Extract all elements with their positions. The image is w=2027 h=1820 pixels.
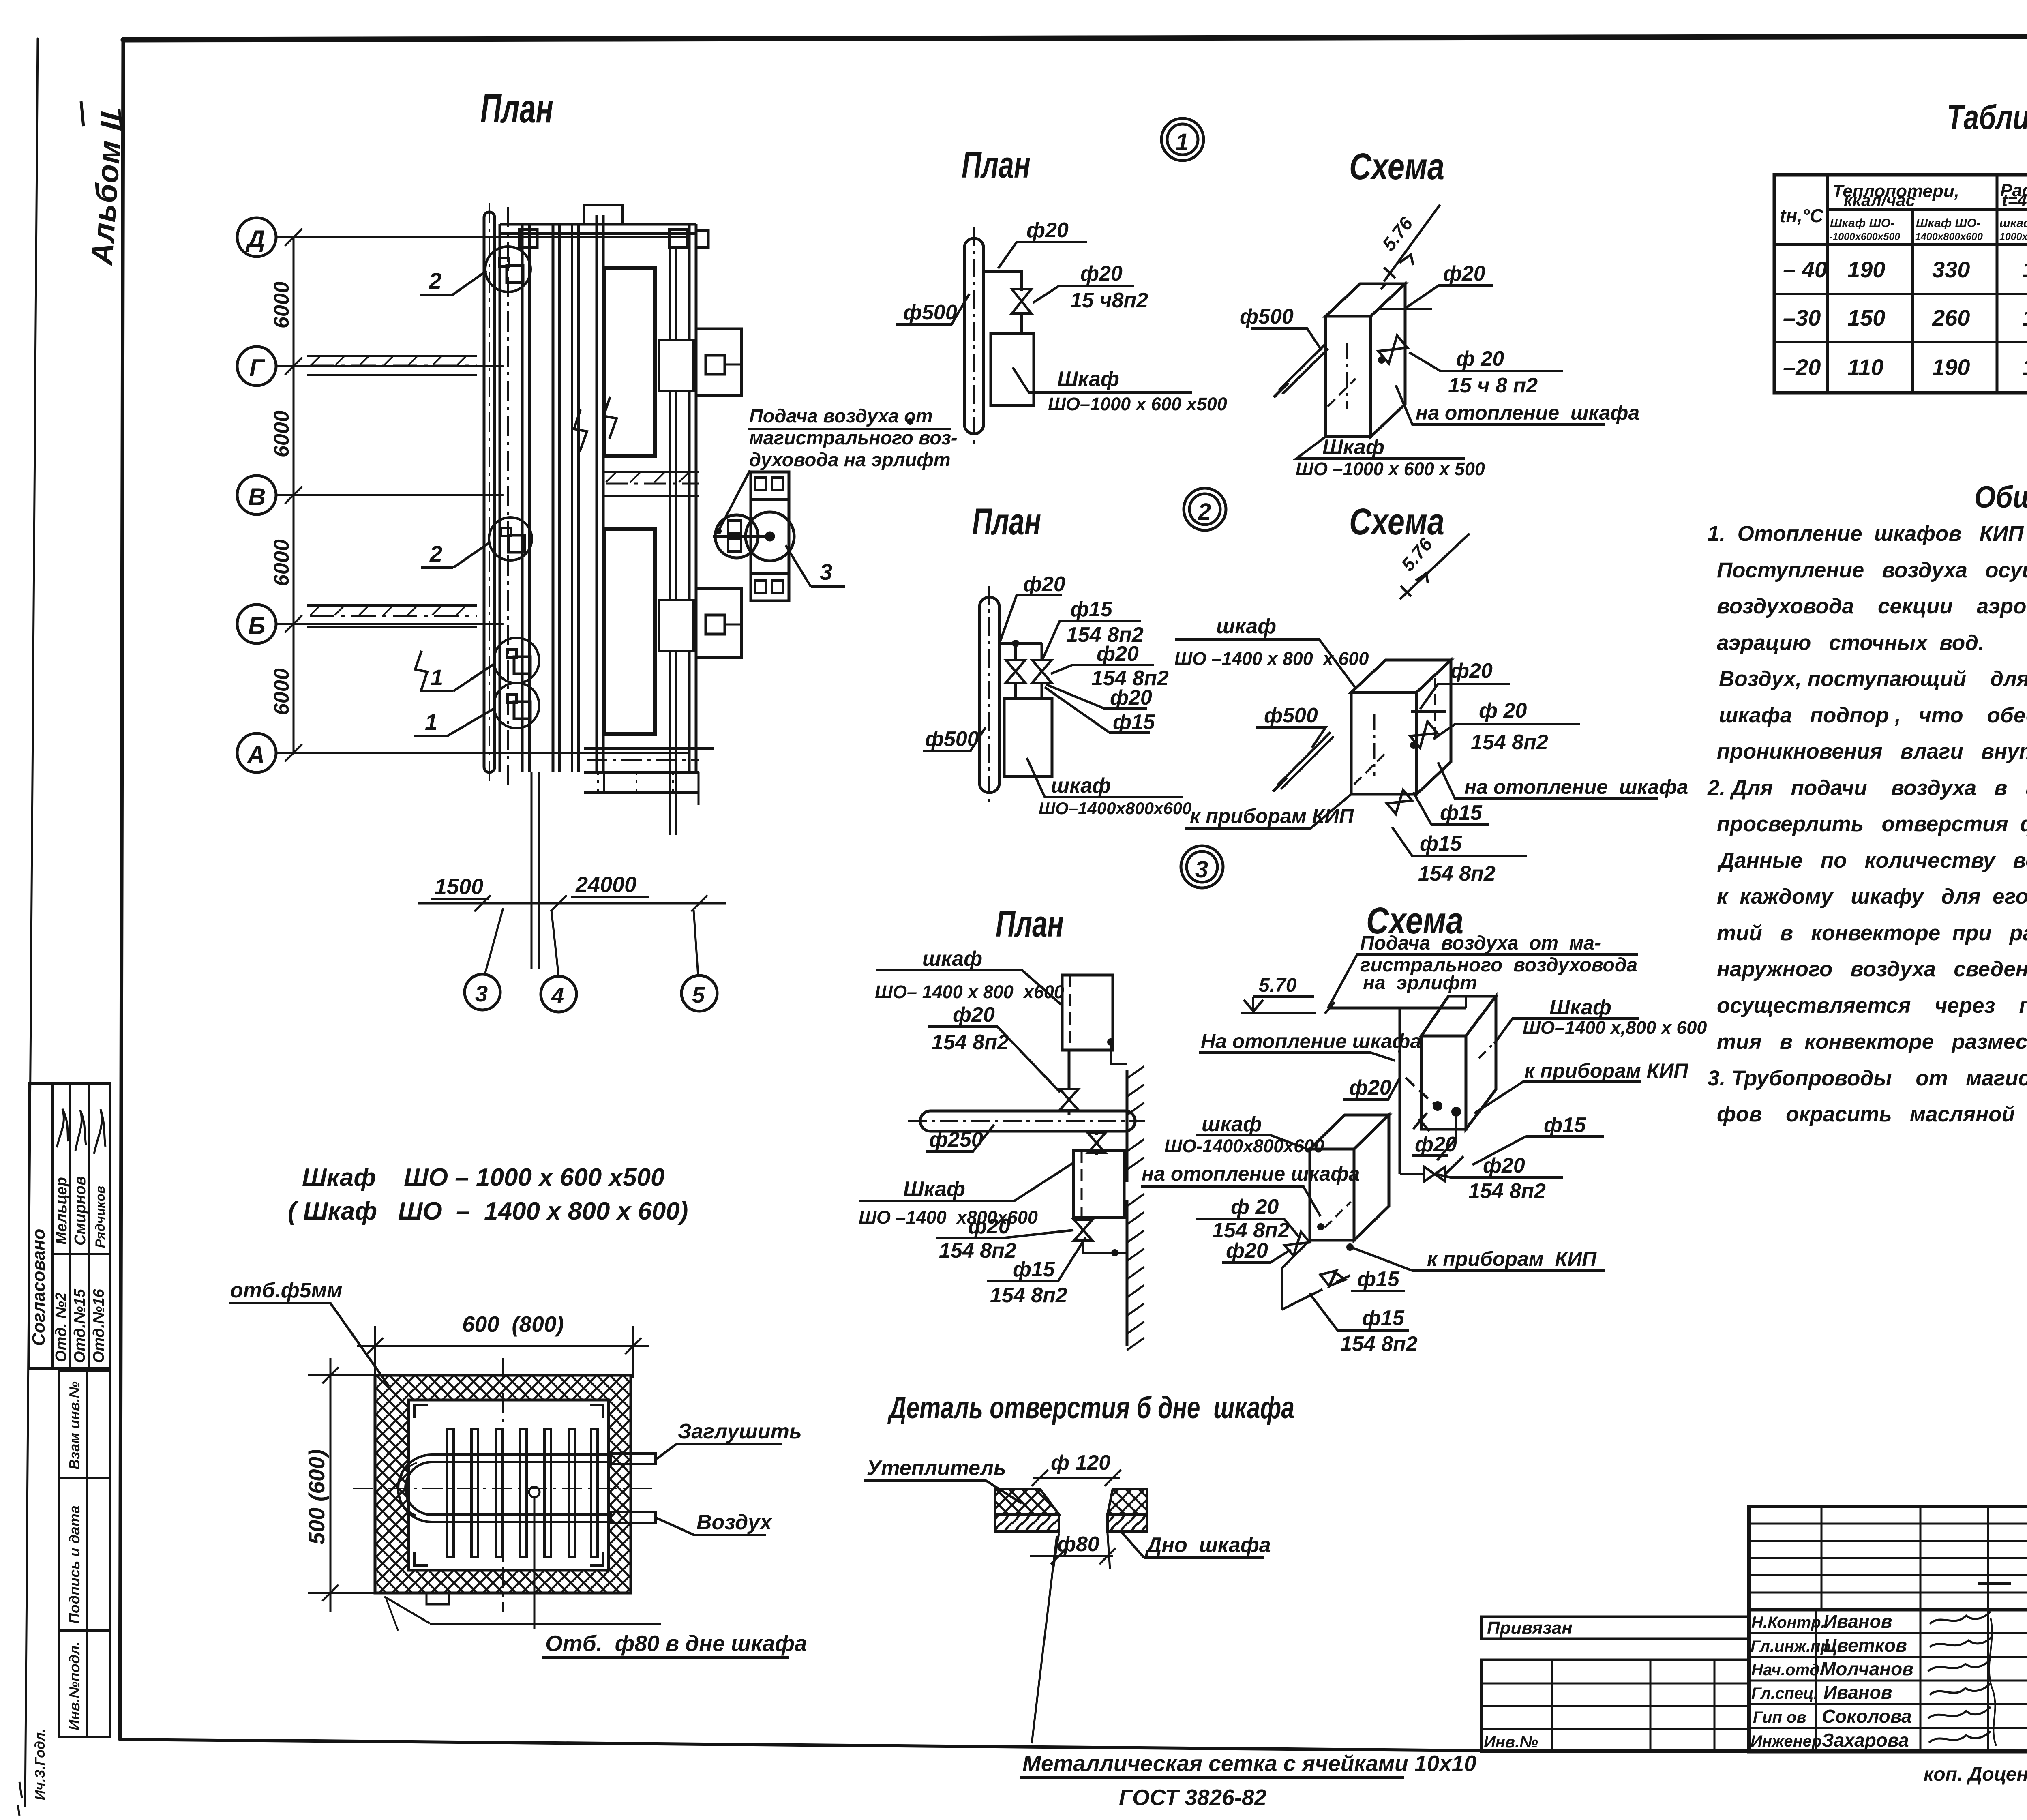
svg-text:Общие указания.: Общие указания. [1974, 480, 2027, 514]
table data rows [1783, 257, 2027, 380]
svg-text:шкаф ШО-: шкаф ШО- [1999, 217, 2027, 230]
svg-text:к приборам КИП: к приборам КИП [1190, 805, 1354, 827]
svg-text:ШО– 1400 х 800 х600: ШО– 1400 х 800 х600 [875, 982, 1064, 1002]
svg-text:на отопление шкафа: на отопление шкафа [1416, 401, 1639, 424]
table grid [1774, 175, 2027, 393]
margin text Альбом II [84, 111, 129, 267]
6000 dimension labels [270, 281, 294, 715]
node 1 schema: cabinet iso box [1326, 284, 1405, 437]
svg-text:ф15: ф15 [1357, 1267, 1400, 1291]
svg-text:шкаф: шкаф [1202, 1113, 1262, 1136]
svg-text:к каждому шкафу для его: к каждому шкафу для его обогрева, и коли… [1717, 885, 2027, 909]
svg-text:Заглушить: Заглушить [678, 1420, 802, 1443]
svg-text:ф15: ф15 [1113, 710, 1155, 734]
svg-text:3: 3 [1195, 856, 1208, 883]
svg-text:Схема: Схема [1349, 146, 1444, 187]
aeration tank 1 [604, 268, 655, 456]
svg-text:Металлическая сетка с ячейками: Металлическая сетка с ячейками 10х10 [1022, 1751, 1476, 1776]
svg-text:на отопление шкафа: на отопление шкафа [1464, 776, 1688, 798]
page left edge line [25, 39, 38, 1806]
cabinet detail: U-pipe coil [398, 1455, 611, 1522]
svg-text:отб.ф5мм: отб.ф5мм [230, 1279, 343, 1302]
svg-text:2: 2 [429, 541, 442, 566]
svg-text:Шкаф: Шкаф [1322, 435, 1384, 459]
svg-text:18: 18 [2022, 257, 2027, 282]
svg-text:План: План [972, 501, 1041, 542]
svg-text:154 8п2: 154 8п2 [932, 1031, 1009, 1054]
svg-text:tн,°C: tн,°C [1780, 205, 1823, 226]
table header texts [1780, 180, 2027, 226]
grid axis Г line [276, 365, 503, 367]
svg-text:154 8п2: 154 8п2 [1471, 731, 1548, 754]
hatched band on axis Г [307, 356, 477, 375]
svg-text:–30: –30 [1783, 305, 1821, 330]
svg-text:Взам инв.№: Взам инв.№ [66, 1381, 83, 1470]
svg-text:В: В [248, 483, 266, 510]
svg-text:Инженер: Инженер [1751, 1732, 1821, 1750]
svg-text:6000: 6000 [270, 410, 294, 457]
grid bubble В [237, 476, 276, 514]
node 3 schema: label Подача воздуха от магистрального воздуховода на эрлифт [1360, 933, 1637, 994]
node 2 plan: duct pipe ф500 [979, 586, 999, 807]
node 3 schema: valve below left box [1320, 1271, 1346, 1286]
svg-text:Привязан: Привязан [1487, 1618, 1573, 1638]
cabinet detail: corner clips [414, 1405, 603, 1565]
svg-text:3. Трубопроводы от магист: 3. Трубопроводы от магистрального воздух… [1708, 1066, 2027, 1090]
node 1 plan: duct pipe ф500 [964, 227, 984, 448]
svg-text:воздуховода секции аэрот: воздуховода секции аэротенка, подающего … [1717, 594, 2027, 618]
svg-text:фов окрасить масляной к: фов окрасить масляной краской за 2 раза. [1717, 1102, 2027, 1126]
node 2 schema: small iso valve bottom [1387, 790, 1412, 814]
underline under II [81, 101, 84, 126]
svg-text:ф20: ф20 [1483, 1154, 1525, 1177]
cabinet detail: door swing [384, 1593, 661, 1631]
node 1 plan: valve 15ч8п2 [1012, 289, 1031, 313]
svg-text:ф20: ф20 [1080, 262, 1123, 285]
svg-text:на отопление шкафа: на отопление шкафа [1142, 1162, 1360, 1185]
node 2 plan: cabinet box [1004, 699, 1052, 776]
svg-text:просверлить отверстия ф 5мм: просверлить отверстия ф 5мм. [1717, 812, 2027, 836]
column lines below plan [485, 748, 698, 976]
node 1 plan: cabinet box [991, 334, 1034, 405]
bottom band below А [584, 772, 699, 805]
general notes text [1707, 522, 2027, 1126]
svg-text:Отд.№15: Отд.№15 [71, 1288, 88, 1363]
svg-text:ф500: ф500 [903, 301, 957, 324]
detail circle 1 (upper) [494, 638, 539, 683]
svg-text:1400х800х600: 1400х800х600 [1915, 231, 1983, 242]
svg-text:ШО –1400 х800х600: ШО –1400 х800х600 [859, 1207, 1038, 1228]
svg-text:ккал/час: ккал/час [1844, 191, 1915, 210]
svg-text:150: 150 [1847, 305, 1885, 330]
svg-text:шкафа подпор , что обес: шкафа подпор , что обеспечивает защиту а… [1719, 703, 2027, 727]
svg-text:2. Для подачи воздуха в: 2. Для подачи воздуха в шкаф. в конвекто… [1707, 776, 2027, 800]
svg-text:ф20: ф20 [1451, 659, 1493, 683]
svg-text:Шкаф: Шкаф [1549, 996, 1611, 1019]
svg-text:Отд. №2: Отд. №2 [53, 1293, 70, 1362]
svg-text:24000: 24000 [575, 872, 636, 897]
node 3 schema: right cabinet iso box [1421, 996, 1496, 1129]
svg-text:6000: 6000 [270, 281, 294, 328]
svg-text:154 8п2: 154 8п2 [939, 1239, 1016, 1263]
svg-text:154 8п2: 154 8п2 [990, 1284, 1067, 1307]
node 3 plan: horizontal pipe ф250 [908, 1111, 1145, 1131]
aeration tank 2 [604, 529, 655, 734]
svg-text:15 ч 8 п2: 15 ч 8 п2 [1448, 374, 1538, 397]
svg-text:190: 190 [1847, 257, 1885, 282]
vertical dimension line between bubbles [293, 237, 295, 753]
node 3 plan: valve upper [1060, 1089, 1078, 1110]
grid axis Б line [276, 623, 503, 625]
node 2 schema: ф500 duct iso [1273, 732, 1334, 791]
svg-text:шкаф: шкаф [1051, 774, 1111, 797]
svg-text:ф 20: ф 20 [1231, 1195, 1279, 1219]
node 3 schema: valve on left box [1285, 1232, 1310, 1256]
bottom-left page edge dashes [18, 1782, 22, 1816]
svg-text:ШО–1000 х 600 х500: ШО–1000 х 600 х500 [1048, 394, 1227, 414]
svg-text:Воздух: Воздух [696, 1511, 773, 1534]
settling tank outlet box 1 [659, 329, 741, 396]
hatched band on axis В right [603, 472, 699, 496]
svg-text:ф15: ф15 [1070, 598, 1113, 621]
detail circle 2 (middle) [489, 517, 532, 560]
svg-text:ф20: ф20 [953, 1003, 995, 1027]
svg-text:Г: Г [249, 354, 266, 382]
frame top border [123, 36, 2027, 40]
svg-text:Деталь отверстия б дне шкафа: Деталь отверстия б дне шкафа [887, 1391, 1294, 1425]
svg-text:ф500: ф500 [1240, 305, 1294, 328]
svg-text:ф20: ф20 [1110, 686, 1152, 710]
node 2 schema: iso valve on right face [1410, 721, 1437, 748]
svg-text:Ич.З.Годл.: Ич.З.Годл. [32, 1728, 48, 1800]
hole detail: left insulated block [995, 1489, 1059, 1531]
node 2 plan: branch pipes with two drops [999, 643, 1042, 699]
svg-text:110: 110 [1847, 354, 1883, 380]
svg-text:( Шкаф ШО – 1400 х 800 х 6: ( Шкаф ШО – 1400 х 800 х 600) [288, 1197, 688, 1225]
column circle 3 [465, 974, 500, 1010]
node 3 schema: left cabinet iso box [1310, 1115, 1389, 1240]
node 3 plan: drop from upper box to pipe [1068, 1050, 1071, 1090]
cabinet size note [288, 1164, 688, 1225]
svg-text:ф 20: ф 20 [1479, 699, 1527, 722]
svg-text:2: 2 [1198, 499, 1211, 525]
node 1 plan: branch pipe [984, 272, 1022, 334]
air supply unit (magistral duct to airlift) [713, 472, 794, 601]
grid axis В line [276, 494, 503, 496]
settling tank outlet box 2 [659, 589, 741, 658]
svg-text:ф15: ф15 [1013, 1258, 1055, 1281]
svg-text:Таблица: Таблица [1947, 98, 2027, 136]
svg-text:154 8п2: 154 8п2 [1468, 1179, 1546, 1203]
node 3 schema: piping cluster below right box [1400, 1102, 1463, 1174]
node 3 schema: vertical riser [1399, 1008, 1401, 1174]
svg-text:ф15: ф15 [1544, 1113, 1586, 1137]
svg-text:ф15: ф15 [1362, 1306, 1405, 1330]
svg-text:ШО–1400х800х600: ШО–1400х800х600 [1039, 799, 1191, 818]
svg-text:Гл.инж.пр: Гл.инж.пр [1751, 1638, 1830, 1655]
svg-text:Инв.№: Инв.№ [1484, 1733, 1538, 1751]
svg-text:ф 20: ф 20 [1456, 347, 1504, 371]
frame bottom border [120, 1739, 2027, 1751]
svg-text:Иванов: Иванов [1823, 1611, 1892, 1632]
svg-text:Шкаф: Шкаф [903, 1177, 965, 1201]
svg-text:Шкаф ШО-: Шкаф ШО- [1830, 217, 1894, 230]
svg-text:Б: Б [248, 612, 265, 639]
left stamp: Взам инв / Подпись и дата / Инв № подл [59, 1370, 110, 1737]
svg-text:План: План [962, 144, 1031, 186]
svg-text:Д: Д [245, 225, 265, 253]
svg-text:Гип ов: Гип ов [1753, 1709, 1806, 1726]
svg-text:t=40°C. м³/час.: t=40°C. м³/час. [2002, 191, 2027, 210]
bottom dimension line 1500 / 24000 [418, 895, 726, 911]
cabinet detail: right stubs through wall [611, 1453, 656, 1523]
svg-text:1500: 1500 [435, 875, 483, 899]
svg-text:ф20: ф20 [1097, 642, 1139, 666]
node 3 plan: valve to lower box [1088, 1133, 1106, 1153]
node 3 plan: upper cabinet box [1062, 975, 1113, 1050]
svg-text:Цветков: Цветков [1823, 1635, 1907, 1656]
node 2 schema: 5.76 elevation line [1400, 534, 1470, 599]
svg-text:1000х600х500: 1000х600х500 [1999, 231, 2027, 242]
svg-text:Шкаф ШО-: Шкаф ШО- [1916, 217, 1980, 230]
grid bubble А [237, 733, 276, 772]
node 2 schema: ф20 stub [1411, 710, 1446, 713]
svg-text:План: План [996, 903, 1064, 945]
svg-text:Утеплитель: Утеплитель [867, 1456, 1006, 1480]
break (zigzag) marks [415, 397, 617, 691]
label Подача воздуха от магистрального воздуховода на эрлифт [749, 405, 958, 470]
title block: left Привязан table [1481, 1617, 1749, 1751]
svg-text:шкаф: шкаф [1216, 615, 1276, 638]
svg-text:Гл.спец.: Гл.спец. [1751, 1685, 1818, 1702]
svg-text:330: 330 [1932, 257, 1970, 282]
svg-text:600 (800): 600 (800) [462, 1312, 564, 1337]
node 3 schema: piping below left box [1282, 1240, 1350, 1310]
svg-text:2: 2 [429, 268, 441, 294]
svg-text:260: 260 [1932, 305, 1970, 330]
svg-text:4: 4 [551, 983, 564, 1008]
svg-text:Шкаф: Шкаф [1057, 367, 1119, 391]
svg-text:ф15: ф15 [1420, 832, 1462, 855]
svg-text:Мельцер: Мельцер [53, 1177, 70, 1245]
svg-text:ф 120: ф 120 [1051, 1451, 1110, 1475]
svg-text:Иванов: Иванов [1823, 1682, 1892, 1703]
vertical air duct pipe (left riser) [484, 203, 495, 782]
svg-text:Инв.№подл.: Инв.№подл. [66, 1642, 83, 1730]
svg-text:Схема: Схема [1349, 501, 1444, 542]
node 1 schema: ф500 duct iso [1274, 345, 1328, 397]
svg-text:Согласовано: Согласовано [29, 1229, 49, 1346]
svg-text:тия в конвекторе размести: тия в конвекторе разместить равномерно п… [1717, 1030, 2027, 1054]
node 2 plan: valve right [1032, 660, 1052, 683]
svg-text:тий в конвекторе при ра: тий в конвекторе при разных расчетных те… [1717, 921, 2027, 945]
svg-text:Подача воздуха от: Подача воздуха от [749, 405, 933, 427]
svg-text:к приборам КИП: к приборам КИП [1427, 1248, 1597, 1270]
svg-text:Подпись и дата: Подпись и дата [66, 1505, 83, 1624]
svg-text:Отб. ф80 в дне шкафа: Отб. ф80 в дне шкафа [545, 1631, 807, 1656]
svg-text:5: 5 [692, 982, 705, 1008]
svg-text:5.70: 5.70 [1259, 975, 1297, 996]
svg-text:ф20: ф20 [968, 1215, 1010, 1238]
svg-text:1. Отопление шкафов КИП –: 1. Отопление шкафов КИП – воздушное ( t … [1708, 522, 2027, 546]
svg-text:Молчанов: Молчанов [1820, 1658, 1913, 1679]
title block: main frame [1749, 1610, 2027, 1751]
svg-text:Воздух, поступающий для о: Воздух, поступающий для отопления, созда… [1719, 667, 2027, 691]
node 3 circle [1181, 846, 1223, 888]
svg-text:Нач.отд.: Нач.отд. [1751, 1661, 1824, 1679]
svg-text:духовода на эрлифт: духовода на эрлифт [749, 449, 951, 470]
svg-text:Поступление воздуха осущес: Поступление воздуха осуществляется от ма… [1717, 558, 2027, 582]
svg-text:ШО–1400 х,800 х 600: ШО–1400 х,800 х 600 [1523, 1017, 1707, 1038]
svg-text:Н.Контр.: Н.Контр. [1751, 1614, 1826, 1631]
svg-text:154 8п2: 154 8п2 [1418, 862, 1496, 885]
top cap of aerotank block [500, 205, 708, 247]
node 3 plan: wall with hatching [1127, 1066, 1144, 1350]
svg-text:ф500: ф500 [1264, 704, 1318, 727]
node 3 schema: valve pair at riser bottom [1424, 1167, 1445, 1181]
cabinet detail: insulated frame (outer+inner with crosshatch) [375, 1375, 631, 1593]
node 3 plan: lower cabinet box [1073, 1151, 1124, 1218]
left stamp: Согласовано block [29, 1083, 110, 1368]
aerotank left wall [500, 207, 529, 785]
node 3 plan: drop from pipe to lower box [1095, 1131, 1098, 1135]
grid axis Д line [276, 236, 689, 238]
title block: personnel rows [1749, 1610, 2027, 1751]
node 2 circle [1184, 488, 1226, 530]
title block: signature squiggles [1928, 1612, 1996, 1746]
node 2 schema: cabinet iso box [1351, 660, 1451, 794]
corridor walls [553, 215, 603, 772]
detail circle 2 (top) [485, 247, 531, 292]
svg-text:1: 1 [1176, 129, 1189, 155]
cabinet detail: centerlines [353, 1358, 657, 1612]
node 1 schema: iso valve [1378, 335, 1408, 363]
svg-text:15 ч8п2: 15 ч8п2 [1070, 289, 1148, 312]
svg-text:14: 14 [2022, 305, 2027, 330]
svg-text:Рядчиков: Рядчиков [93, 1186, 107, 1248]
node 1 circle [1161, 118, 1204, 161]
svg-text:ф20: ф20 [1415, 1133, 1457, 1156]
svg-text:ф20: ф20 [1026, 219, 1069, 242]
svg-text:ф20: ф20 [1023, 572, 1065, 596]
svg-text:3: 3 [475, 981, 488, 1006]
svg-text:Дно шкафа: Дно шкафа [1145, 1533, 1271, 1557]
svg-text:Смирнов: Смирнов [72, 1176, 89, 1245]
right wall of block [689, 224, 696, 772]
svg-text:500 (600): 500 (600) [304, 1449, 329, 1545]
grid bubble Б [237, 605, 276, 643]
svg-text:коп. Доценко: коп. Доценко [1924, 1764, 2027, 1785]
svg-text:А: А [246, 741, 265, 768]
svg-text:– 40: – 40 [1783, 257, 1827, 282]
svg-text:6000: 6000 [270, 668, 294, 715]
svg-text:–20: –20 [1783, 354, 1821, 380]
svg-text:190: 190 [1932, 354, 1970, 380]
node 2 plan: valve left [1006, 660, 1025, 683]
interior channel lines [670, 248, 676, 748]
frame left border [120, 40, 123, 1739]
svg-text:1: 1 [425, 709, 437, 735]
svg-text:На отопление шкафа: На отопление шкафа [1201, 1030, 1421, 1053]
svg-text:1: 1 [431, 665, 443, 690]
svg-text:154 8п2: 154 8п2 [1340, 1332, 1418, 1356]
title block: change table grid [1749, 1507, 2027, 1610]
svg-text:к приборам КИП: к приборам КИП [1524, 1059, 1688, 1082]
svg-text:6000: 6000 [270, 539, 294, 586]
svg-text:на эрлифт: на эрлифт [1363, 972, 1477, 994]
table subheader texts [1829, 217, 2027, 242]
svg-text:10: 10 [2022, 354, 2027, 380]
grid bubble Г [237, 347, 276, 386]
node 3 schema: dashed ф20 line across riser [1406, 1078, 1434, 1104]
svg-text:План: План [480, 86, 553, 131]
svg-text:Подача воздуха от ма-: Подача воздуха от ма- [1360, 933, 1601, 954]
svg-text:ГОСТ 3826-82: ГОСТ 3826-82 [1119, 1785, 1267, 1810]
node 3 plan: line below lower box with valve [1083, 1218, 1127, 1253]
node 1 schema: 5.76 elevation line [1381, 205, 1440, 289]
cabinet detail: ф80 hole center mark [529, 1487, 540, 1497]
svg-text:аэрацию сточных вод.: аэрацию сточных вод. [1717, 631, 1984, 655]
column circle 4 [541, 976, 576, 1012]
svg-text:Шкаф ШО – 1000 х 600 х500: Шкаф ШО – 1000 х 600 х500 [302, 1164, 664, 1192]
svg-text:Соколова: Соколова [1822, 1706, 1912, 1727]
hole detail: mesh leader line [1032, 1536, 1057, 1743]
node 3 plan: dot and stub right of upper box [1107, 1038, 1114, 1046]
signature squiggles above names [57, 1109, 105, 1154]
grid axis А line [276, 752, 689, 754]
svg-text:Захарова: Захарова [1822, 1730, 1909, 1751]
svg-text:ф20: ф20 [1349, 1076, 1391, 1100]
svg-text:Данные по количеству воз: Данные по количеству воздуха, который сл… [1717, 849, 2027, 872]
hole detail: right insulated block [1108, 1489, 1147, 1531]
svg-text:ф500: ф500 [925, 727, 979, 751]
column circle 5 [681, 975, 717, 1011]
concrete band on axis А right [584, 748, 714, 797]
svg-text:ф15: ф15 [1440, 801, 1483, 825]
hatched band on axis Б [307, 605, 477, 627]
svg-text:3: 3 [820, 559, 832, 585]
svg-text:проникновения влаги внутрь: проникновения влаги внутрь. [1717, 740, 2027, 763]
svg-text:ф20: ф20 [1443, 262, 1485, 285]
svg-text:шкаф: шкаф [922, 947, 982, 971]
grid bubble Д [237, 218, 276, 257]
svg-text:Отд.№16: Отд.№16 [90, 1288, 107, 1363]
detail circle 1 (lower) [494, 683, 539, 728]
svg-text:-1000х600х500: -1000х600х500 [1829, 231, 1900, 242]
svg-text:ф20: ф20 [1226, 1239, 1268, 1263]
node 1 schema: ф20 stub on top [1378, 308, 1432, 310]
cabinet detail: convector fins [447, 1429, 598, 1557]
svg-text:осуществляется через пат: осуществляется через патрубок в дне шкаф… [1717, 994, 2027, 1018]
svg-text:ШО –1000 х 600 х 500: ШО –1000 х 600 х 500 [1296, 459, 1485, 479]
svg-text:наружного воздуха сведены: наружного воздуха сведены в таблицу. Вых… [1717, 957, 2027, 981]
node 3 schema: magistral duct horizontal line [1325, 996, 1466, 1014]
